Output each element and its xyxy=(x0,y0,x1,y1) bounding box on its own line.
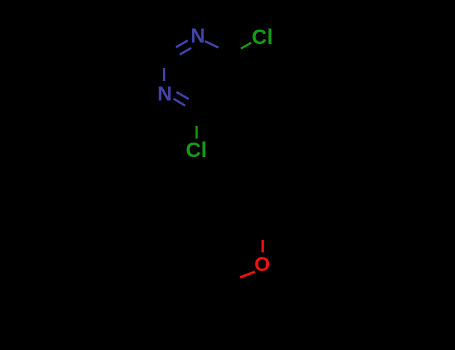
invisible carbon skeleton (black on black): pyrimidine ring xyxy=(195,55,296,285)
bond N1=C2 main half (blue) xyxy=(176,41,188,48)
bond Car-O half (red vertical) xyxy=(262,240,264,252)
bond N1=C2 inner half (blue) xyxy=(180,48,191,55)
wire: benzene ring bonds xyxy=(230,153,295,228)
bond C2-N3 half (blue vertical) xyxy=(163,68,165,81)
wire: C5-CH2 bridge bond xyxy=(230,93,263,112)
wire: ethyl CH2-CH3 bond xyxy=(195,267,228,286)
svg-text:Cl: Cl xyxy=(186,139,207,162)
bond N1-C4 half (blue) xyxy=(205,41,219,47)
bond N3=C6 main half (blue) xyxy=(174,99,186,106)
bond C4-Cl half (green) xyxy=(241,43,251,49)
bond N3=C6 inner half (blue) xyxy=(176,92,188,99)
bond O-CH2 half (red) xyxy=(240,272,255,278)
wire: ring1 C5-C6 bond xyxy=(198,93,231,112)
svg-text:N: N xyxy=(157,83,171,105)
wire: ring1 C4-C5 bond xyxy=(229,55,231,93)
svg-text:Cl: Cl xyxy=(252,26,273,49)
svg-text:N: N xyxy=(191,25,205,47)
bond C6-Cl half (green vertical) xyxy=(196,126,198,139)
svg-text:O: O xyxy=(254,254,270,276)
wire: CH2-ipso bond xyxy=(262,112,264,153)
